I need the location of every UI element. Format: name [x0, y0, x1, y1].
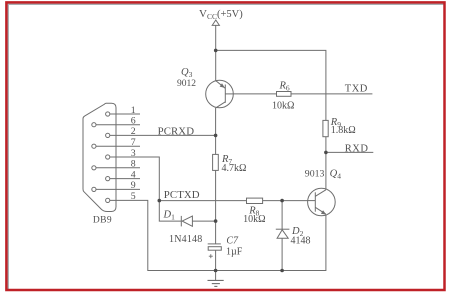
- junction dot VCC: [214, 49, 218, 53]
- resistor R6: [277, 92, 292, 97]
- diode D1 (1N4148, cathode bar left, pointing left): [181, 216, 192, 227]
- wire Q3 collector down through R7 to D1 node: [215, 108, 217, 221]
- svg-text:8: 8: [131, 159, 136, 170]
- svg-text:5: 5: [131, 191, 136, 202]
- wire pin 1 stub: [110, 113, 140, 115]
- svg-text:6: 6: [131, 116, 136, 127]
- resistor R7: [213, 154, 219, 170]
- DB9 pin 4 circle: [106, 177, 110, 181]
- svg-text:PCTXD: PCTXD: [164, 189, 200, 201]
- svg-text:2: 2: [131, 126, 136, 137]
- transistor Q4 (NPN 9013): [308, 188, 336, 216]
- svg-text:4.7kΩ: 4.7kΩ: [222, 163, 247, 174]
- svg-text:7: 7: [131, 137, 136, 148]
- capacitor C7 (electrolytic, plate and box): [208, 244, 222, 250]
- capacitor C7 plus sign: [209, 254, 213, 258]
- wire pin 6 stub: [96, 124, 140, 126]
- svg-text:4148: 4148: [291, 235, 311, 246]
- DB9 pin 3 circle: [106, 155, 110, 159]
- svg-text:DB9: DB9: [93, 216, 112, 226]
- DB9 pin 9 circle: [92, 187, 96, 191]
- junction dot D2 top: [280, 199, 284, 203]
- DB9 pin 8 circle: [92, 166, 96, 170]
- junction dot PCTXD-D1: [158, 199, 162, 203]
- junction dot D2 ground rail: [280, 269, 284, 273]
- wire pin 9 stub: [96, 188, 140, 190]
- wire C7 node down through capacitor to rail: [215, 221, 217, 244]
- DB9 connector body: [83, 103, 116, 211]
- node VCC wire (vertical from power symbol to Q3 emitter): [215, 25, 217, 80]
- power symbol VCC triangle: [212, 20, 219, 25]
- svg-text:1.8kΩ: 1.8kΩ: [331, 125, 356, 136]
- svg-text:1µF: 1µF: [226, 246, 243, 257]
- svg-text:9: 9: [131, 180, 136, 191]
- resistor R9: [323, 120, 328, 136]
- svg-text:VCC(+5V): VCC(+5V): [199, 8, 243, 21]
- diode D2 (4148, cathode bar top, pointing up): [276, 229, 290, 238]
- svg-text:RXD: RXD: [345, 144, 369, 155]
- DB9 pin 6 circle: [92, 123, 96, 127]
- junction dot PCRXD node: [214, 134, 218, 138]
- svg-text:1N4148: 1N4148: [169, 234, 202, 245]
- DB9 pin 7 circle: [92, 144, 96, 148]
- DB9 pin 5 circle: [106, 198, 110, 202]
- wire D2 bottom to rail: [281, 238, 283, 270]
- wire PCTXD line to Q4 base: [159, 200, 307, 202]
- wire top rail from VCC junction to right: [216, 50, 326, 120]
- transistor Q3 (PNP 9012): [206, 80, 234, 108]
- svg-text:TXD: TXD: [345, 84, 368, 95]
- wire pin 8 stub: [96, 167, 140, 169]
- wire R9 bottom to Q4 collector: [325, 137, 327, 190]
- svg-text:10kΩ: 10kΩ: [272, 100, 294, 111]
- svg-text:9013: 9013: [305, 168, 325, 179]
- svg-text:4: 4: [131, 169, 136, 180]
- svg-text:3: 3: [131, 148, 136, 159]
- wire D1 branch: [159, 201, 181, 222]
- svg-text:9012: 9012: [177, 79, 196, 89]
- wire pin 4 stub: [110, 178, 140, 180]
- wire PCRXD line (pin 2 to Q3 collector node): [110, 134, 216, 136]
- wire D1 anode to C7 node: [192, 220, 215, 222]
- svg-text:PCRXD: PCRXD: [158, 125, 195, 137]
- junction dot C7 ground rail: [214, 269, 218, 273]
- wire pin 5 to ground rail: [110, 200, 326, 270]
- svg-text:10kΩ: 10kΩ: [243, 214, 265, 225]
- svg-text:1: 1: [131, 105, 136, 116]
- wire TXD line (Q3 base through R6 to TXD): [234, 93, 373, 95]
- junction dot RXD node: [324, 151, 328, 155]
- resistor R8: [247, 198, 263, 203]
- wire D2 branch top: [281, 201, 283, 230]
- ground: [208, 280, 224, 286]
- wire pin 3 to PCTXD line: [110, 157, 160, 201]
- DB9 pin 2 circle: [106, 133, 110, 137]
- wire RXD line: [326, 151, 373, 153]
- junction dot D1-C7 node: [214, 219, 218, 223]
- wire pin 7 stub: [96, 145, 140, 147]
- svg-text:C7: C7: [226, 236, 239, 247]
- DB9 pin 1 circle: [106, 112, 110, 116]
